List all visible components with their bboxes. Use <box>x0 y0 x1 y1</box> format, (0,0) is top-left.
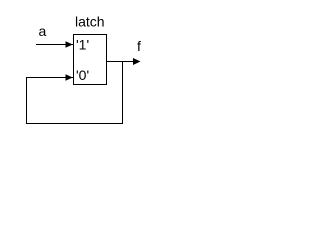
wire feedback into '0' <box>26 77 73 79</box>
wire feedback bottom <box>26 123 123 125</box>
wire output f <box>107 61 134 63</box>
svg-text:'1': '1' <box>76 37 89 53</box>
arrowhead input a <box>66 41 73 48</box>
wire input a <box>36 44 73 46</box>
arrowhead feedback '0' <box>66 74 73 81</box>
svg-text:a: a <box>39 23 47 39</box>
svg-text:f: f <box>137 38 141 54</box>
svg-text:latch: latch <box>75 14 105 30</box>
wire feedback left vertical <box>26 77 28 124</box>
wire feedback right vertical <box>122 61 124 124</box>
arrowhead output f <box>133 58 141 65</box>
svg-text:'0': '0' <box>76 67 89 83</box>
latch block U1 <box>74 35 107 85</box>
